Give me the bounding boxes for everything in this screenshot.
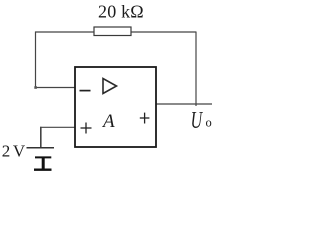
non-inverting input plus sign <box>81 123 92 134</box>
op-amp A box <box>75 67 156 147</box>
wire: top feedback horizontal <box>35 31 196 33</box>
wire: output <box>156 103 212 105</box>
svg-text:2 V: 2 V <box>2 141 26 160</box>
wire: source vertical lead <box>40 127 42 148</box>
op-amp triangle symbol <box>103 79 117 94</box>
battery negative plate symbol <box>34 157 52 170</box>
svg-text:A: A <box>101 111 115 132</box>
inverting input minus sign <box>80 90 91 92</box>
wire: left vertical feedback <box>35 32 37 89</box>
output polarity plus sign <box>140 113 150 124</box>
svg-text:U: U <box>191 107 204 134</box>
wire: inverting input <box>35 87 75 89</box>
wire: non-inverting input <box>40 126 75 128</box>
svg-text:20 kΩ: 20 kΩ <box>98 2 144 22</box>
junction node at feedback corner <box>34 86 37 89</box>
wire: right vertical feedback <box>195 32 197 107</box>
battery positive plate (long) <box>27 147 55 149</box>
svg-text:o: o <box>206 116 212 130</box>
resistor R 20 kOhm <box>94 27 131 36</box>
